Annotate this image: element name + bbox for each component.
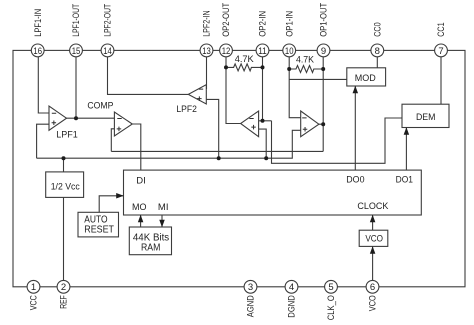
svg-text:6: 6: [370, 282, 375, 293]
arrowhead MO into block: [138, 215, 144, 223]
op-amp OP1: [301, 111, 319, 137]
svg-text:15: 15: [72, 46, 81, 57]
wire COMP output to DI input: [132, 124, 141, 170]
svg-text:RAM: RAM: [141, 242, 160, 253]
block 44K Bits RAM: [129, 227, 171, 255]
svg-text:5: 5: [328, 282, 333, 293]
svg-text:VCC: VCC: [29, 295, 39, 310]
arrowhead AUTO RESET into block: [116, 193, 124, 199]
IC border: [13, 50, 465, 286]
junction dot rail B OP2 plus: [264, 156, 268, 160]
block MOD: [347, 68, 386, 86]
pin 14 LPF2-OUT: [101, 3, 114, 56]
svg-text:CLOCK: CLOCK: [357, 201, 389, 212]
pin 10 OP1-IN: [283, 11, 296, 57]
wire pin11 to OP2 minus node: [262, 57, 264, 121]
svg-text:9: 9: [321, 46, 326, 57]
op-amp LPF1 polarity marks: [52, 113, 57, 125]
op-amp LPF1: [49, 106, 67, 130]
junction dot LPF1 output pin15: [74, 116, 78, 120]
svg-text:MOD: MOD: [355, 73, 376, 84]
arrowhead DO0 into MOD: [353, 86, 359, 94]
wire DO1 to DEM bottom: [405, 128, 407, 171]
block AUTO RESET: [78, 212, 119, 237]
svg-text:LPF2: LPF2: [176, 104, 197, 114]
svg-text:10: 10: [285, 46, 294, 57]
arrowhead MI into RAM: [159, 220, 165, 228]
svg-text:CC1: CC1: [436, 22, 446, 37]
svg-text:LPF2-OUT: LPF2-OUT: [103, 3, 113, 36]
wire pin13 to LPF2 minus input: [206, 57, 208, 89]
svg-text:COMP: COMP: [87, 101, 113, 111]
svg-text:3: 3: [248, 282, 253, 293]
svg-text:12: 12: [222, 46, 231, 57]
svg-text:CC0: CC0: [373, 22, 383, 37]
wire MI block bottom to RAM top: [161, 215, 163, 227]
svg-text:4.7K: 4.7K: [235, 54, 255, 65]
op-amp LPF2: [188, 85, 206, 104]
svg-text:DGND: DGND: [287, 295, 297, 318]
wire pin14 to LPF2 output: [108, 57, 189, 95]
junction dot OP1 output: [321, 122, 325, 126]
junction dot R2 left: [287, 67, 291, 71]
pin 16 LPF1-IN: [31, 9, 44, 57]
svg-text:LPF1-IN: LPF1-IN: [33, 9, 43, 37]
svg-text:VCO: VCO: [365, 234, 383, 245]
svg-text:AGND: AGND: [246, 295, 256, 317]
block VCO: [359, 230, 388, 246]
pin 13 LPF2-IN: [200, 10, 213, 57]
wire pin10 to OP1 minus input: [289, 57, 301, 118]
svg-text:LPF1-OUT: LPF1-OUT: [71, 3, 81, 36]
junction dot OP2 minus node: [261, 119, 265, 123]
svg-text:OP2-OUT: OP2-OUT: [221, 2, 231, 36]
wire pin10 node to MOD left input: [289, 78, 347, 80]
svg-text:RESET: RESET: [84, 224, 114, 235]
svg-text:REF: REF: [59, 295, 69, 309]
wire OP2 minus node to DEM left input: [272, 118, 403, 163]
wire OP1 output to pin9 column: [319, 123, 323, 125]
arrowhead DO1 into DEM: [404, 127, 410, 135]
svg-text:MI: MI: [158, 202, 169, 213]
junction dot R1 right: [261, 65, 265, 69]
svg-text:11: 11: [258, 46, 267, 57]
svg-text:OP2-IN: OP2-IN: [258, 11, 268, 37]
svg-text:1/2 Vcc: 1/2 Vcc: [51, 181, 80, 192]
svg-text:8: 8: [375, 46, 380, 57]
wire OP2 plus input to rail B: [259, 129, 267, 158]
svg-text:DEM: DEM: [416, 112, 436, 123]
svg-text:13: 13: [202, 46, 211, 57]
svg-text:CLK_O: CLK_O: [326, 295, 336, 320]
svg-text:LPF1: LPF1: [56, 129, 78, 139]
block digital core: [124, 170, 422, 215]
junction dot R2 right: [321, 67, 325, 71]
svg-text:4.7K: 4.7K: [296, 55, 315, 66]
pin 7 CC1: [435, 22, 448, 57]
pin 2 REF: [57, 280, 70, 308]
svg-text:1: 1: [31, 282, 36, 293]
op-amp LPF2 polarity marks: [197, 89, 203, 101]
wire pin15 to LPF1 output: [75, 57, 77, 118]
svg-text:14: 14: [103, 46, 112, 57]
arrowhead pin6 into VCO: [370, 246, 376, 254]
svg-text:4: 4: [289, 282, 294, 293]
wire MO RAM top to block bottom: [140, 215, 142, 227]
svg-text:16: 16: [33, 46, 42, 57]
pin 3 AGND: [244, 280, 257, 317]
wire half-Vcc box bottom to pin 2: [63, 197, 65, 280]
wire pin8 to MOD top: [376, 57, 378, 68]
op-amp OP2 polarity marks: [249, 119, 256, 130]
wire DO0 to MOD bottom: [354, 86, 356, 170]
pin 4 DGND: [285, 280, 298, 317]
wire AUTO RESET to block left input: [99, 196, 123, 213]
wire COMP plus to rail A: [111, 129, 114, 152]
pin 15 LPF1-OUT: [70, 3, 83, 56]
rail B half-Vcc reference rail to OP1 plus: [37, 130, 301, 158]
wire VCO top to CLOCK input: [372, 215, 374, 230]
pin 6 VCO: [366, 280, 379, 311]
svg-text:DI: DI: [136, 175, 146, 186]
pin 11 OP2-IN: [256, 11, 269, 57]
pin 12 OP2-OUT: [220, 2, 233, 56]
wire rail B to half-Vcc box top: [63, 158, 65, 172]
wire LPF2 plus input to rail B: [206, 99, 218, 158]
svg-text:LPF2-IN: LPF2-IN: [202, 10, 212, 37]
rail A OP1 output feedback rail: [111, 150, 323, 152]
svg-text:2: 2: [61, 282, 66, 293]
wire pin16 to LPF1 minus input: [38, 57, 49, 113]
wire pin6 to VCO bottom: [372, 246, 374, 280]
arrowhead VCO into CLOCK: [370, 215, 376, 223]
op-amp COMP polarity marks: [117, 119, 122, 132]
junction dot rail B REF: [62, 156, 66, 160]
svg-text:OP1-OUT: OP1-OUT: [319, 2, 329, 36]
pin 9 OP1-OUT: [317, 2, 330, 56]
wire pin12 to OP2 output: [226, 57, 241, 124]
resistor R2 4.7K: [289, 66, 323, 73]
junction dot rail B LPF2 plus: [217, 156, 221, 160]
wire OP2 minus input: [259, 120, 272, 122]
block DEM: [402, 104, 449, 127]
op-amp OP1 polarity marks: [302, 118, 307, 132]
pin 5 CLK_O: [325, 280, 338, 320]
svg-text:MO: MO: [132, 202, 147, 213]
block 1/2 Vcc: [46, 172, 84, 198]
svg-text:7: 7: [438, 46, 443, 57]
junction dot R1 left: [224, 65, 228, 69]
op-amp OP2: [241, 111, 259, 137]
op-amp COMP: [114, 112, 132, 136]
wire LPF1 output to COMP minus: [67, 117, 115, 119]
svg-text:DO1: DO1: [396, 175, 413, 186]
pin 1 VCC: [27, 280, 40, 310]
wire pin7 to DEM top: [440, 57, 442, 104]
wire LPF1 plus input to rail B: [37, 124, 49, 158]
svg-text:VCO: VCO: [368, 295, 378, 311]
pin 8 CC0: [371, 22, 384, 57]
resistor R1 4.7K: [226, 64, 263, 71]
svg-text:DO0: DO0: [346, 175, 364, 186]
wire pin9 column to rail A: [322, 57, 324, 152]
svg-text:OP1-IN: OP1-IN: [284, 11, 294, 37]
